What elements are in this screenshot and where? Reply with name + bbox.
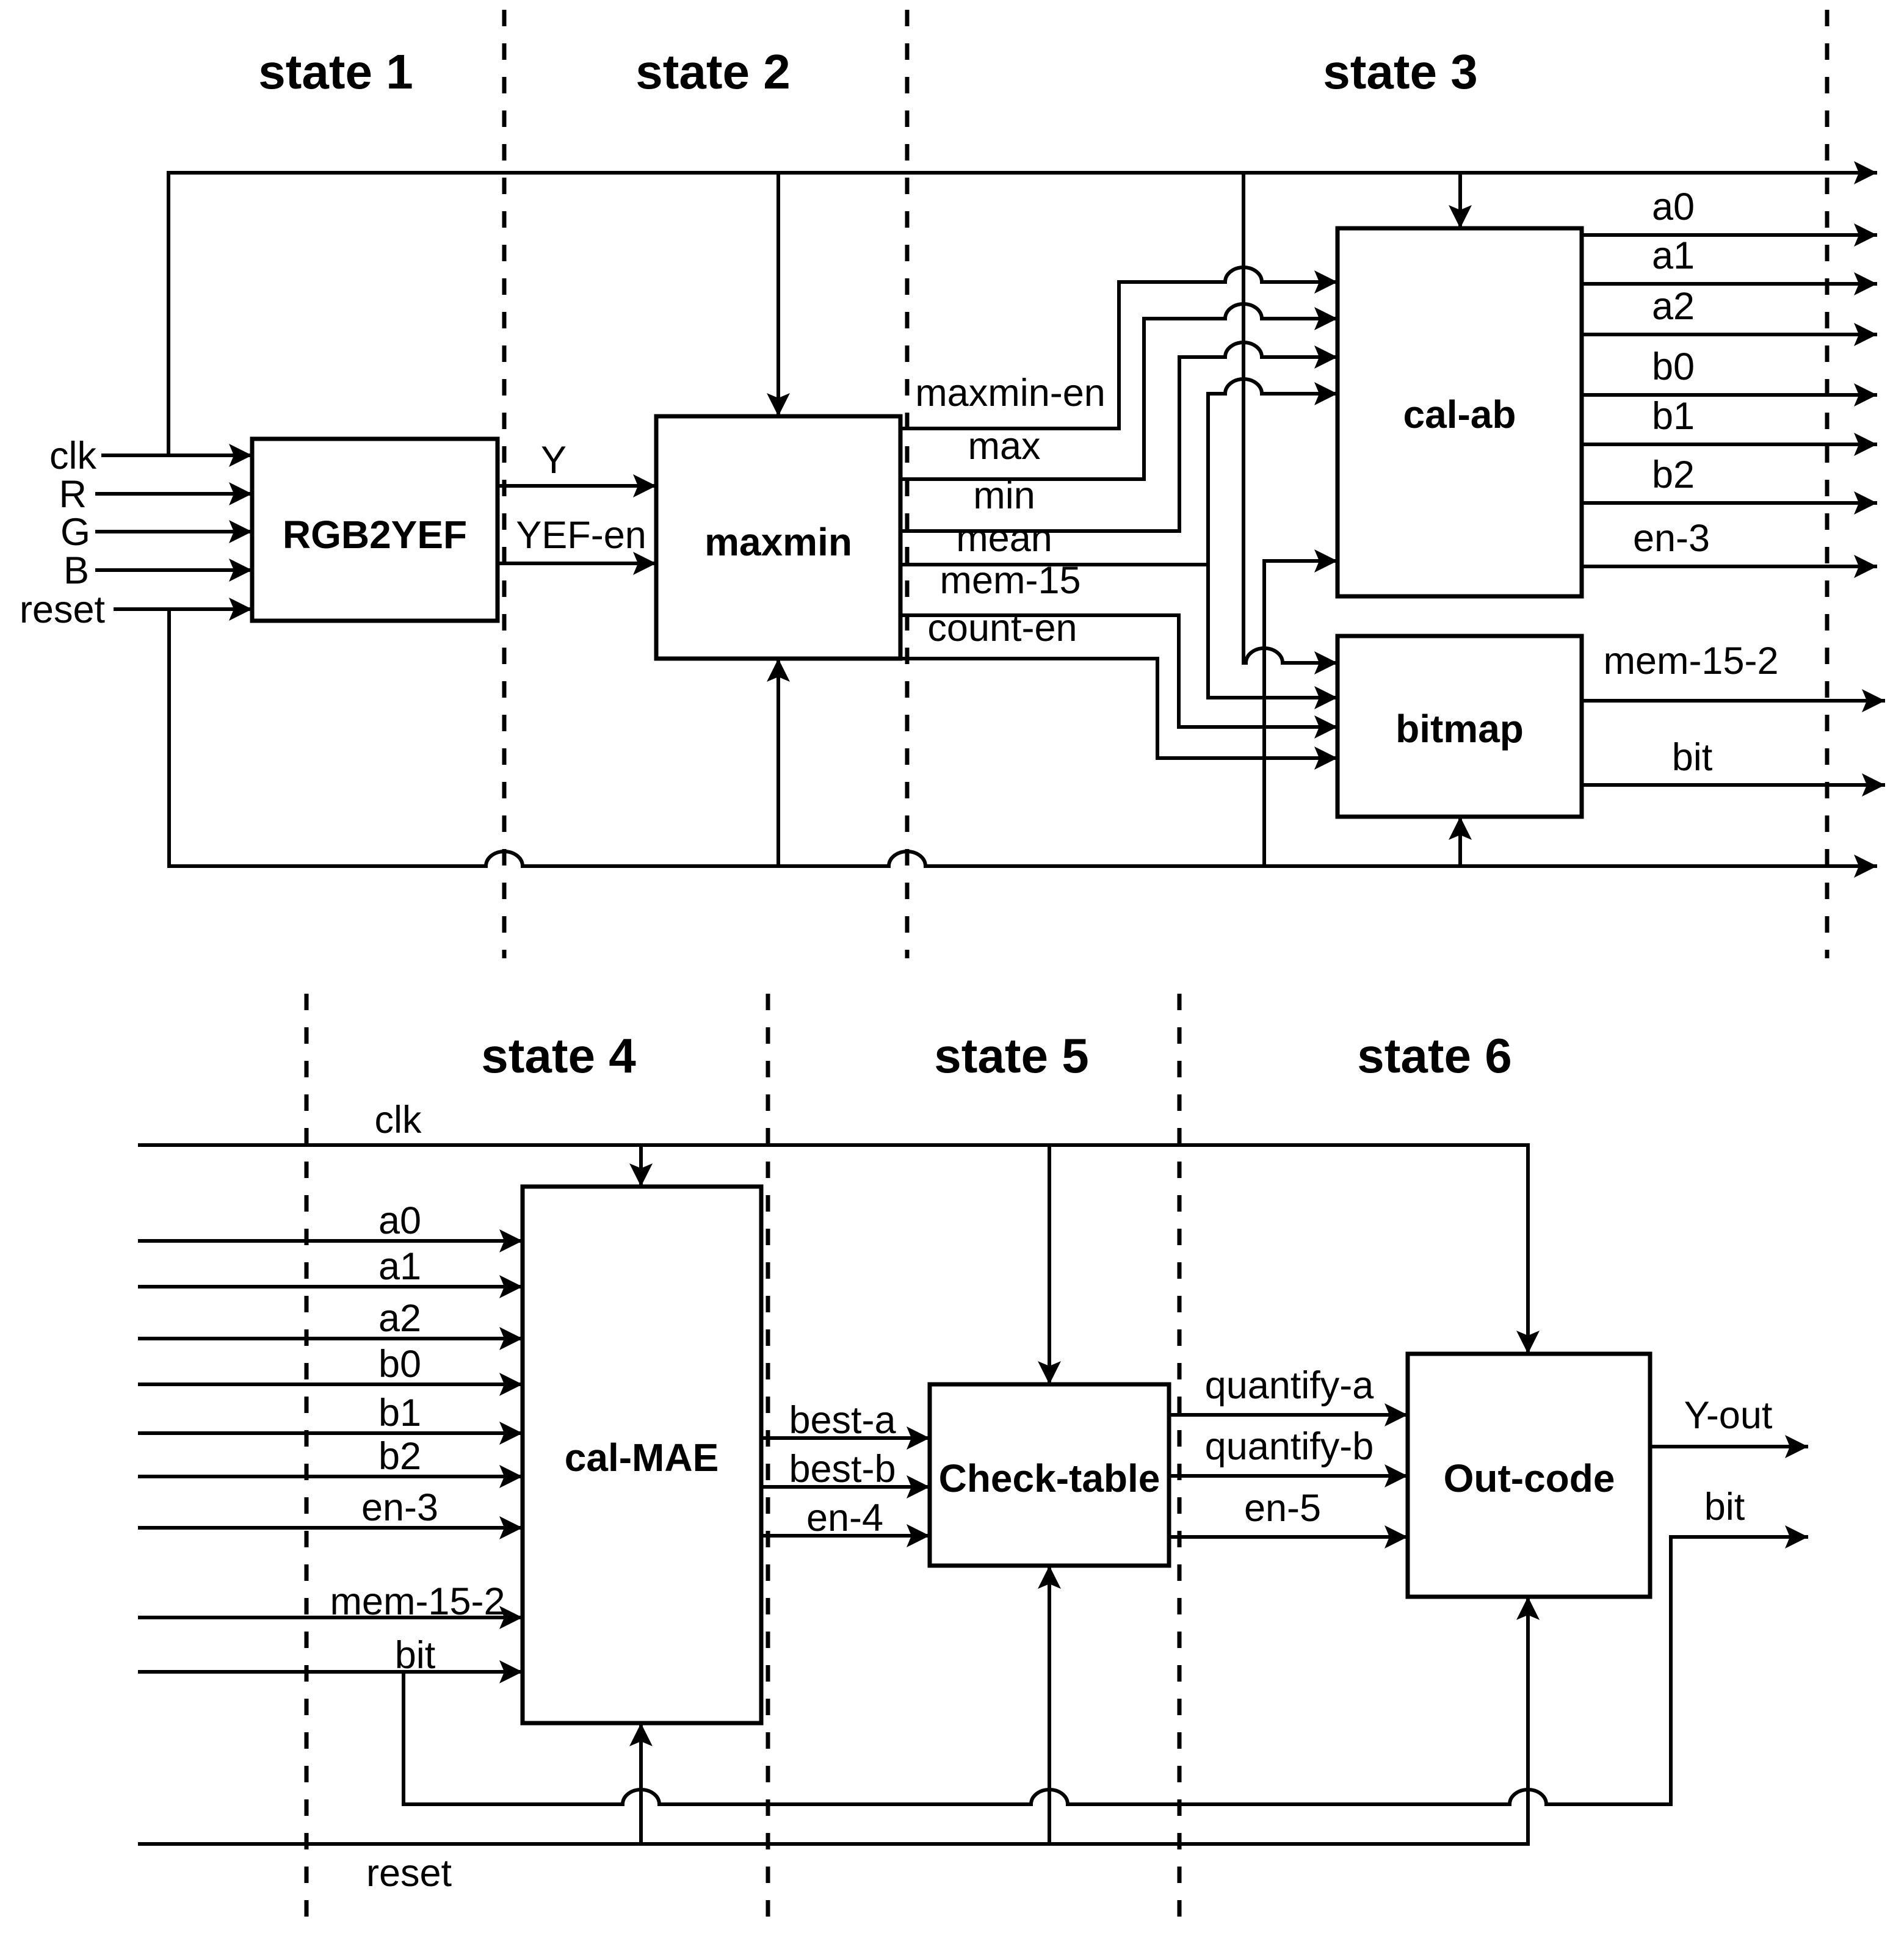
svg-text:best-a: best-a [789,1399,896,1442]
wire a2 out [1582,333,1877,336]
wire maxmin-en [900,267,1338,428]
wire YEF-en [498,562,656,565]
svg-text:Check-table: Check-table [939,1456,1160,1500]
svg-text:a2: a2 [378,1297,421,1340]
wire a1 in [138,1285,523,1289]
svg-text:a0: a0 [1652,186,1695,228]
wire bit in [138,1670,523,1674]
wire a2 in [138,1337,523,1340]
svg-text:en-3: en-3 [1633,517,1710,560]
svg-text:state 4: state 4 [481,1028,636,1083]
wire bit out top [1582,783,1885,787]
block RGB2YEF [252,439,498,621]
wire b1 out [1582,443,1877,446]
wire b2 in [138,1475,523,1478]
svg-text:bit: bit [395,1634,436,1677]
wire a0 in [138,1239,523,1243]
svg-text:mem-15: mem-15 [939,559,1081,602]
svg-text:Y-out: Y-out [1684,1394,1773,1437]
svg-text:state 3: state 3 [1323,45,1477,99]
block cal-MAE [523,1187,761,1723]
wire en-4 [761,1534,930,1538]
wire best-b [761,1485,930,1489]
wire clk top distribution [168,173,1877,455]
wire b2 out [1582,501,1877,505]
svg-text:bit: bit [1672,736,1713,779]
wire en-3 out [1582,565,1877,568]
svg-text:reset: reset [20,588,106,631]
wire bit feed-through with hops [404,1537,1808,1804]
svg-text:a2: a2 [1652,285,1695,328]
svg-text:en-4: en-4 [806,1497,883,1539]
wire reset riser to cal-ab [1264,561,1338,866]
wire reset riser to Check-table [1048,1566,1051,1844]
svg-text:Out-code: Out-code [1444,1456,1615,1500]
wire Y-out [1650,1445,1808,1448]
svg-text:bit: bit [1704,1486,1745,1528]
wire reset riser to cal-MAE [639,1723,643,1844]
wire clk input [101,454,252,457]
wire best-a [761,1436,930,1440]
state boundary dashed line 5 [766,994,770,1932]
svg-text:clk: clk [49,435,96,477]
svg-text:en-3: en-3 [361,1486,438,1529]
svg-text:maxmin: maxmin [704,520,852,564]
wire b0 out [1582,393,1877,397]
svg-text:mean: mean [956,517,1052,560]
svg-text:b0: b0 [1652,345,1695,388]
svg-text:state 2: state 2 [635,45,790,99]
svg-text:mem-15-2: mem-15-2 [330,1580,505,1623]
wire mean [900,563,1208,566]
svg-text:cal-MAE: cal-MAE [565,1436,719,1480]
svg-text:mem-15-2: mem-15-2 [1603,640,1778,682]
svg-text:cal-ab: cal-ab [1403,392,1516,436]
svg-text:G: G [60,511,90,554]
svg-text:max: max [968,425,1040,468]
wire reset bottom distribution with hops over dashed lines [169,609,1877,866]
svg-text:R: R [59,473,87,516]
wire reset riser to maxmin [776,659,780,866]
block maxmin [656,416,900,659]
wire quantify-a [1169,1413,1408,1417]
svg-text:b2: b2 [378,1435,421,1478]
wire G input [95,530,252,533]
wire count-en [900,659,1338,758]
wire quantify-b [1169,1474,1408,1478]
block Out-code [1408,1354,1650,1597]
svg-text:Y: Y [541,439,566,482]
wire reset input [114,607,252,611]
svg-text:b0: b0 [378,1343,421,1386]
block bitmap [1338,636,1582,817]
wire mean branch to bitmap [1208,565,1338,698]
svg-text:a0: a0 [378,1199,421,1242]
svg-text:a1: a1 [378,1245,421,1288]
wire a1 out [1582,282,1877,286]
svg-text:state 6: state 6 [1357,1028,1511,1083]
wire min [900,342,1338,531]
wire clk bottom distribution [138,1145,1528,1354]
wire clk drop to cal-ab [1458,173,1462,228]
wire mem-15 [900,615,1338,727]
svg-text:reset: reset [366,1852,452,1895]
svg-text:b2: b2 [1652,454,1695,496]
block Check-table [930,1384,1169,1566]
svg-text:YEF-en: YEF-en [516,514,646,557]
wire Y [498,484,656,488]
wire clk branch to bitmap with hop [1243,173,1338,663]
svg-text:clk: clk [375,1099,422,1141]
wire mem-15-2 in [138,1616,523,1619]
wire clk drop to Check-table [1048,1145,1051,1384]
state boundary dashed line 3 [1825,10,1830,958]
svg-text:b1: b1 [1652,395,1695,438]
block cal-ab [1338,228,1582,596]
svg-text:bitmap: bitmap [1395,707,1524,751]
state boundary dashed line 4 [305,994,309,1932]
wire mem-15-2 out [1582,699,1885,703]
wire B input [95,568,252,572]
wire max [900,304,1338,479]
state boundary dashed line 2 [905,10,910,958]
svg-text:a1: a1 [1652,234,1695,277]
wire R input [95,492,252,496]
wire en-3 in [138,1526,523,1530]
wire clk drop to maxmin [776,173,780,416]
state boundary dashed line 1 [502,10,507,958]
svg-text:b1: b1 [378,1392,421,1434]
svg-text:state 1: state 1 [258,45,413,99]
state boundary dashed line 6 [1178,994,1182,1932]
wire b0 in [138,1383,523,1386]
wire en-5 [1169,1535,1408,1539]
svg-text:en-5: en-5 [1244,1487,1321,1530]
svg-text:RGB2YEF: RGB2YEF [283,513,467,557]
wire a0 out [1582,233,1877,237]
wire clk drop to cal-MAE [639,1145,643,1187]
wire mean branch to cal-ab [1208,379,1338,565]
svg-text:B: B [63,549,89,592]
wire reset riser to bitmap [1458,817,1462,866]
svg-text:quantify-b: quantify-b [1205,1425,1374,1468]
svg-text:state 5: state 5 [934,1028,1088,1083]
svg-text:min: min [973,474,1035,517]
svg-text:maxmin-en: maxmin-en [915,372,1106,414]
svg-text:quantify-a: quantify-a [1205,1364,1375,1407]
wire reset bottom half [138,1597,1528,1844]
svg-text:count-en: count-en [927,607,1077,649]
svg-text:best-b: best-b [789,1448,896,1491]
wire b1 in [138,1431,523,1435]
